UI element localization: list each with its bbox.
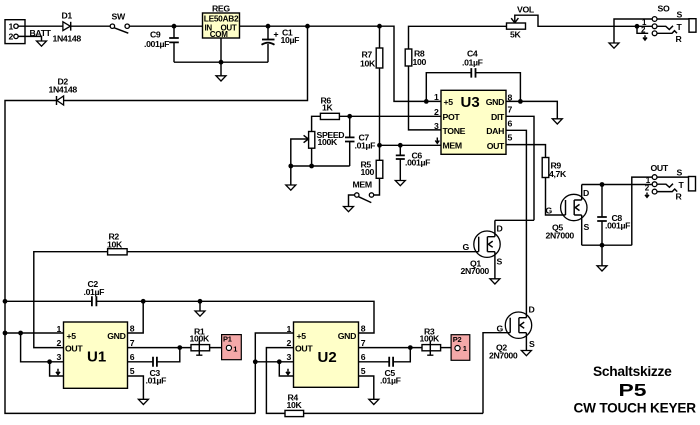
- resistor R7: [376, 26, 383, 160]
- node rail to C2 line: [3, 299, 8, 304]
- resistor R3: [422, 341, 455, 356]
- wire U1 pin8 riser to bus: [128, 301, 144, 333]
- svg-text:10K: 10K: [287, 400, 303, 410]
- wire SW to REG IN: [129, 25, 202, 27]
- capacitor C4: [426, 68, 520, 101]
- wire speed pot ground tie: [291, 165, 350, 167]
- ground at Q1 source: [490, 279, 500, 284]
- svg-text:OUT: OUT: [487, 141, 505, 151]
- svg-text:DAH: DAH: [486, 126, 504, 136]
- svg-text:10K: 10K: [360, 59, 376, 69]
- resistor R9: [542, 158, 565, 216]
- node +5 branch to D2 row: [305, 24, 310, 29]
- node C4 left leg: [424, 99, 429, 104]
- svg-text:P1: P1: [223, 334, 232, 343]
- svg-text:D: D: [583, 188, 589, 198]
- svg-text:10µF: 10µF: [281, 35, 300, 45]
- svg-text:U2: U2: [318, 349, 337, 366]
- connector BATT box: [5, 20, 25, 44]
- pin 4 U3 arrow glyph: [435, 138, 439, 144]
- svg-text:1N4148: 1N4148: [53, 34, 82, 44]
- transistor Q1: [474, 220, 500, 278]
- svg-text:VOL: VOL: [517, 5, 535, 15]
- ground at SO jack: [609, 43, 619, 48]
- svg-text:1N4148: 1N4148: [49, 85, 78, 95]
- node C1 top: [266, 24, 271, 29]
- svg-text:CW TOUCH KEYER: CW TOUCH KEYER: [574, 401, 697, 416]
- node C4 right leg: [518, 99, 523, 104]
- diode D2: [57, 96, 64, 105]
- node R7 top: [377, 24, 382, 29]
- svg-text:100K: 100K: [318, 137, 338, 147]
- node U1 pin3-pin4 tie: [47, 359, 52, 364]
- pad P2: [451, 335, 470, 361]
- wire U1 pin1 to rail: [5, 332, 64, 334]
- wire REG COM to ground: [220, 38, 222, 76]
- svg-text:D: D: [529, 305, 535, 315]
- svg-text:S: S: [529, 339, 535, 349]
- svg-text:3: 3: [434, 121, 439, 131]
- svg-text:Schaltskizze: Schaltskizze: [593, 364, 672, 379]
- capacitor C8: [597, 185, 607, 246]
- svg-text:S: S: [677, 10, 683, 20]
- pin arrow SO: [643, 35, 647, 40]
- wire U3 pin6 DAH down to Q2 drain: [506, 130, 526, 317]
- svg-text:.01µF: .01µF: [84, 287, 105, 297]
- svg-text:P5: P5: [619, 380, 647, 400]
- wire Q1 drain link to DIT: [495, 219, 534, 221]
- node U2 pin3 riser tie: [253, 359, 258, 364]
- svg-text:OUT: OUT: [65, 343, 83, 353]
- svg-text:2: 2: [434, 107, 439, 117]
- node R3 C5 junction: [408, 345, 413, 350]
- svg-text:POT: POT: [443, 112, 461, 122]
- svg-text:S: S: [584, 222, 590, 232]
- svg-text:D: D: [497, 224, 503, 234]
- wire REG lower line: [174, 61, 268, 63]
- svg-text:D1: D1: [62, 11, 73, 21]
- op-amp U2: [294, 322, 359, 387]
- svg-text:U1: U1: [87, 349, 106, 366]
- wire SO jack S to ground: [614, 19, 652, 43]
- pin 4 U2 arrow glyph: [286, 369, 290, 375]
- svg-text:6: 6: [508, 118, 513, 128]
- svg-text:2N7000: 2N7000: [489, 351, 518, 361]
- wire pin1 jog down to pin3: [21, 333, 64, 362]
- node COM junction: [219, 60, 224, 65]
- svg-text:+5: +5: [444, 97, 454, 107]
- svg-text:6: 6: [130, 352, 135, 362]
- svg-text:2: 2: [287, 338, 292, 348]
- svg-text:TONE: TONE: [443, 126, 466, 136]
- capacitor C1 polarized: [262, 26, 279, 62]
- transistor Q5: [561, 185, 587, 246]
- wire U2 pin2 riser to R4 line: [266, 348, 293, 414]
- wire U2 pin4 jog: [279, 362, 293, 376]
- wire OUT jack S to source line: [632, 177, 652, 245]
- ground at U1 pin5: [138, 399, 148, 404]
- resistor R6: [312, 113, 441, 131]
- svg-text:7: 7: [508, 104, 513, 114]
- wire U1 pin4 jog: [50, 362, 64, 376]
- svg-text:SW: SW: [112, 12, 126, 22]
- wire MEM line: [378, 144, 442, 146]
- svg-text:.01µF: .01µF: [380, 376, 401, 386]
- node R5 top on MEM line: [377, 143, 382, 148]
- svg-text:1: 1: [287, 324, 292, 334]
- svg-text:1: 1: [434, 92, 439, 102]
- svg-text:2: 2: [9, 32, 14, 42]
- wire D2 to left rail and down to bottom rail: [5, 101, 255, 414]
- node pot bottom tie: [309, 164, 314, 169]
- wire U2 pin3 to riser: [255, 361, 293, 363]
- svg-text:6: 6: [361, 352, 366, 362]
- resistor R8: [405, 26, 506, 130]
- regulator REG box: [203, 13, 240, 39]
- op-amp U1: [64, 322, 128, 388]
- node wiper ground tie: [288, 164, 293, 169]
- diode D1: [63, 22, 71, 31]
- wire +5 down to D2 row: [64, 26, 308, 100]
- node U1 pin8 riser on bus: [141, 299, 146, 304]
- svg-text:1: 1: [463, 344, 467, 353]
- svg-text:7: 7: [130, 338, 135, 348]
- node C8 top: [600, 182, 605, 187]
- svg-text:8: 8: [130, 323, 135, 333]
- ground at Q2 source: [521, 351, 531, 356]
- wire U3 pin5 OUT to R9: [506, 145, 546, 158]
- wire U3 pin7 DIT down: [506, 116, 534, 220]
- capacitor C6: [396, 145, 405, 180]
- wire BATT pin1 to D1: [18, 25, 63, 27]
- svg-text:LE50AB2: LE50AB2: [204, 15, 239, 24]
- svg-text:2: 2: [57, 338, 62, 348]
- svg-text:MEM: MEM: [443, 140, 462, 150]
- svg-text:5: 5: [130, 366, 135, 376]
- svg-text:COM: COM: [210, 30, 228, 39]
- svg-text:.01µF: .01µF: [355, 141, 376, 151]
- svg-text:.001µF: .001µF: [605, 221, 630, 231]
- svg-text:5: 5: [361, 366, 366, 376]
- svg-text:P2: P2: [453, 335, 462, 344]
- switch MEM: [349, 193, 374, 207]
- svg-text:5K: 5K: [510, 30, 521, 40]
- ground at speed pot: [286, 185, 296, 190]
- wire U1 pin7 to R1: [128, 347, 192, 349]
- pin 4 U1 arrow glyph: [56, 369, 60, 375]
- svg-text:SO: SO: [658, 3, 670, 13]
- svg-text:7: 7: [361, 338, 366, 348]
- wire U2 pin5 to ground: [359, 376, 374, 399]
- ground at C6: [395, 181, 405, 186]
- node C6 on MEM line: [398, 143, 403, 148]
- node ground bus drop: [198, 299, 203, 304]
- node U2 pin3-pin4 tie: [277, 359, 282, 364]
- svg-text:S: S: [677, 167, 683, 177]
- svg-text:1: 1: [233, 344, 237, 353]
- wire SO jack R tie: [637, 26, 648, 33]
- svg-text:100: 100: [361, 167, 375, 177]
- wire U1 pin2 OUT to R2 riser: [34, 252, 108, 348]
- resistor R2: [108, 249, 479, 255]
- svg-text:C9: C9: [150, 29, 161, 39]
- svg-text:8: 8: [361, 323, 366, 333]
- capacitor C3: [128, 348, 180, 367]
- svg-text:5: 5: [508, 132, 513, 142]
- potentiometer SPEED: [291, 132, 315, 186]
- svg-text:+5: +5: [297, 331, 307, 341]
- capacitor C9: [169, 26, 179, 62]
- ground at bus: [195, 311, 205, 316]
- ground at MEM switch: [344, 207, 354, 212]
- svg-text:GND: GND: [486, 97, 504, 107]
- svg-text:G: G: [463, 242, 470, 252]
- wire REG OUT +5 rail to U3 pin1: [240, 26, 442, 101]
- wire C8 bottom to ground: [601, 245, 603, 266]
- wire Q5 drain bus to OUT jack T: [582, 184, 652, 186]
- svg-text:MEM: MEM: [353, 180, 372, 190]
- svg-text:1: 1: [9, 22, 14, 32]
- potentiometer VOL: [507, 15, 653, 29]
- ground at REG: [216, 76, 226, 81]
- svg-text:.01µF: .01µF: [462, 58, 483, 68]
- svg-text:10K: 10K: [107, 240, 123, 250]
- node pin1 jog: [18, 331, 23, 336]
- svg-text:.01µF: .01µF: [146, 376, 167, 386]
- wire D1 to SW: [71, 25, 111, 27]
- connector OUT jack: [652, 175, 695, 194]
- node R1 C3 junction: [177, 345, 182, 350]
- svg-text:OUT: OUT: [295, 343, 313, 353]
- wire U2 pin1 riser to bottom rail: [255, 333, 293, 413]
- svg-text:GND: GND: [107, 331, 125, 341]
- node rail pin1: [3, 331, 8, 336]
- capacitor C7: [345, 116, 355, 166]
- resistor R5: [374, 160, 383, 195]
- connector SO jack: [652, 17, 696, 36]
- svg-text:DIT: DIT: [491, 112, 505, 122]
- svg-text:100: 100: [413, 57, 427, 67]
- wire BATT pin2 to ground: [18, 36, 41, 41]
- svg-text:2N7000: 2N7000: [461, 266, 490, 276]
- ground at BATT: [37, 41, 47, 46]
- svg-text:GND: GND: [338, 331, 356, 341]
- transistor Q2: [505, 312, 531, 351]
- resistor R1: [191, 341, 226, 356]
- pin arrow OUT jack: [645, 193, 649, 198]
- op-amp U3: [441, 90, 506, 154]
- wire Q5 source line: [582, 244, 632, 246]
- svg-text:S: S: [497, 257, 503, 267]
- wire U2 pin7 to R3: [359, 347, 423, 349]
- svg-text:+5: +5: [67, 331, 77, 341]
- svg-text:G: G: [546, 206, 553, 216]
- svg-text:4,7K: 4,7K: [549, 169, 567, 179]
- pad P1: [222, 334, 242, 359]
- capacitor C2: [92, 296, 97, 306]
- node C9 top: [172, 24, 177, 29]
- wire Q2 gate to R4 line: [483, 333, 510, 414]
- wire U3 pin8 to ground: [506, 101, 557, 118]
- node SO jack T-R tie: [635, 24, 640, 29]
- svg-text:100K: 100K: [190, 333, 210, 343]
- ground at U2 pin5: [369, 399, 379, 404]
- wire bus to ground: [199, 301, 201, 311]
- svg-text:3: 3: [287, 352, 292, 362]
- capacitor C5: [359, 348, 411, 367]
- switch SW: [110, 24, 129, 33]
- node C8 bottom: [600, 243, 605, 248]
- wire U1 pin5 to ground: [128, 376, 144, 399]
- svg-text:.001µF: .001µF: [405, 158, 430, 168]
- resistor R4: [285, 410, 483, 416]
- ground at C8: [597, 266, 607, 271]
- svg-text:U3: U3: [461, 94, 480, 111]
- svg-text:OUT: OUT: [651, 163, 669, 173]
- svg-text:3: 3: [57, 352, 62, 362]
- svg-text:.001µF: .001µF: [144, 39, 169, 49]
- svg-text:1K: 1K: [322, 103, 333, 113]
- node R6 to C7 junction: [347, 114, 352, 119]
- wire ground bus with C2: [5, 301, 374, 333]
- svg-text:100K: 100K: [420, 333, 440, 343]
- svg-text:REG: REG: [212, 4, 230, 14]
- ground at U3 pin8: [552, 119, 562, 124]
- svg-text:2N7000: 2N7000: [546, 231, 575, 241]
